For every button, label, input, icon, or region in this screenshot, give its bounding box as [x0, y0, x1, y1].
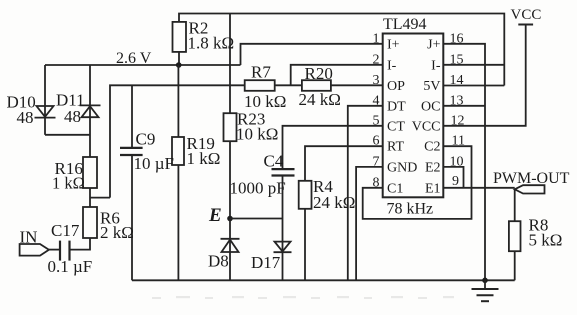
svg-text:OP: OP [387, 79, 405, 94]
wire: pin 4 (DT) lead down to ground rail [348, 106, 383, 280]
wire: 2.6V net from D10 column to pin 1 riser [45, 64, 241, 66]
wire: R16 to R6 [89, 188, 91, 207]
svg-text:12: 12 [451, 113, 465, 128]
svg-text:6: 6 [373, 134, 380, 149]
svg-text:RT: RT [387, 140, 404, 155]
svg-text:5V: 5V [423, 79, 440, 94]
svg-text:11: 11 [452, 134, 465, 149]
svg-text:PWM-OUT: PWM-OUT [493, 170, 570, 187]
wire: node E down through D8 to ground rail [229, 219, 231, 281]
svg-text:10: 10 [450, 154, 464, 169]
diode D8 (cathode up) [221, 238, 240, 240]
wire: feedback rail at y=85 from R16/R6 tap to R7 [110, 85, 245, 197]
svg-text:24 kΩ: 24 kΩ [313, 193, 355, 212]
wire: R4 bottom to ground rail [304, 209, 306, 280]
capacitor C4 plates [272, 168, 295, 170]
svg-text:16: 16 [450, 31, 464, 46]
svg-text:13: 13 [450, 93, 464, 108]
scan artifact smudges (decorative) [152, 296, 454, 299]
svg-text:R7: R7 [251, 63, 271, 82]
svg-text:4: 4 [373, 93, 380, 108]
svg-text:C1: C1 [387, 181, 403, 196]
wire: top rail drop to R23 [229, 14, 231, 114]
svg-text:C17: C17 [51, 221, 80, 240]
svg-text:2.6 V: 2.6 V [116, 50, 152, 67]
resistor R8 [509, 221, 521, 251]
capacitor C9 plates [120, 147, 143, 149]
resistor R2 [173, 22, 187, 52]
svg-text:10 kΩ: 10 kΩ [244, 92, 286, 111]
resistor R20 [302, 80, 331, 91]
wire: pin 7 (GND) lead down to ground rail [356, 167, 383, 280]
svg-text:24 kΩ: 24 kΩ [299, 90, 341, 109]
IC U1 TL494 body [383, 34, 444, 198]
svg-text:C9: C9 [136, 130, 156, 149]
svg-text:DT: DT [387, 99, 406, 114]
svg-text:VCC: VCC [412, 119, 441, 134]
svg-text:E: E [208, 205, 222, 226]
diode D17 (cathode down) [275, 242, 291, 252]
resistor R19 [172, 137, 184, 165]
svg-text:1000 pF: 1000 pF [230, 179, 286, 198]
junction dot at ground symbol [482, 278, 488, 284]
svg-text:10 kΩ: 10 kΩ [236, 125, 278, 144]
svg-text:TL494: TL494 [383, 16, 427, 33]
resistor R4 [299, 181, 312, 209]
svg-text:9: 9 [452, 174, 459, 189]
wire: pin 5 (CT) lead to C4 [283, 126, 384, 169]
wire: R20 to pin 3 (OP) [331, 84, 383, 86]
wire: C9 bottom to ground rail [131, 155, 133, 280]
wire: 2.6V node down to R19 [177, 65, 179, 137]
diode D11 (cathode up) [80, 104, 101, 106]
wire: node E to C4/D17 column [230, 218, 283, 220]
wire: D10 bottom to link [45, 134, 90, 136]
wire: pin 8 (C1) loop under IC to pin 11 (C2) [363, 146, 472, 219]
svg-text:10 µF: 10 µF [134, 154, 175, 173]
wire: pin 9 (E1) lead to PWM-OUT [443, 187, 514, 189]
wire: pin 13 (OC) lead to ground column [443, 105, 485, 107]
wire: R2 bottom to 2.6V node [178, 52, 180, 65]
wire: pin 15 (I-) lead to top-rail drop [443, 64, 504, 66]
resistor R7 [245, 80, 275, 91]
svg-text:J+: J+ [427, 37, 440, 52]
wire: pin 6 (RT) lead to R4 [305, 146, 383, 181]
resistor R6 [83, 207, 97, 238]
wire: D10 branch [44, 65, 46, 135]
svg-text:R20: R20 [305, 64, 333, 83]
svg-text:78 kHz: 78 kHz [387, 201, 434, 218]
wire: pin 14 (5V) lead to top-rail drop [443, 85, 504, 87]
svg-text:5 kΩ: 5 kΩ [529, 231, 563, 250]
wire: R19 bottom to ground rail [177, 165, 179, 280]
svg-text:D8: D8 [208, 252, 229, 271]
svg-text:C2: C2 [424, 140, 440, 155]
svg-text:E1: E1 [425, 181, 441, 196]
svg-text:8: 8 [373, 175, 380, 190]
junction dot node E [227, 216, 233, 222]
svg-text:5: 5 [373, 113, 380, 128]
wire: R23 bottom to node E [229, 141, 231, 218]
svg-text:3: 3 [373, 73, 380, 88]
svg-text:15: 15 [450, 52, 464, 67]
ground symbol [484, 280, 486, 289]
wire: top rail from R2 top to pin15/14 drop [179, 14, 504, 86]
svg-text:2: 2 [373, 52, 380, 67]
wire: pin 2 lead with drop to R7-R20 junction [291, 65, 383, 86]
svg-text:OC: OC [421, 99, 440, 114]
svg-text:1 kΩ: 1 kΩ [52, 174, 85, 193]
wire: R7 to R20 link [275, 84, 302, 86]
junction dot at R2 bottom / 2.6V node [176, 62, 182, 68]
wire: R6 bottom to C17 [71, 238, 91, 250]
wire: D11 branch down to R16 [89, 65, 91, 157]
power VCC symbol bar [518, 24, 533, 26]
svg-text:IN: IN [20, 228, 38, 247]
svg-text:I-: I- [431, 58, 441, 73]
wire: C9 tap from feedback rail [131, 85, 133, 147]
svg-text:I-: I- [387, 58, 397, 73]
capacitor C17 plates [68, 241, 70, 261]
svg-text:14: 14 [450, 73, 464, 88]
svg-text:48: 48 [17, 108, 34, 127]
wire: pin 10 (E2) jog to pin 9 [443, 167, 463, 188]
svg-text:2 kΩ: 2 kΩ [100, 223, 134, 242]
wire: bottom ground rail [132, 279, 515, 281]
wire: R8 bottom to ground rail [514, 251, 516, 280]
svg-text:48: 48 [64, 107, 81, 126]
wire: pin 12 (VCC) lead to VCC column [443, 25, 525, 126]
wire: R16/R6 junction tap to feedback rail [90, 197, 110, 199]
wire: PWM-OUT tap down to R8 [514, 189, 516, 221]
wire: C4 bottom through D17 to ground rail [282, 176, 284, 281]
resistor R16 [83, 157, 97, 188]
svg-text:C4: C4 [264, 152, 284, 171]
terminal PWM-OUT flag [515, 185, 545, 193]
resistor R23 [224, 113, 237, 141]
svg-text:1 kΩ: 1 kΩ [187, 149, 221, 168]
svg-text:1: 1 [373, 31, 380, 46]
diode D10 (cathode down) [37, 106, 54, 117]
wire: pin 1 riser and pin 1 lead [241, 44, 384, 65]
svg-text:VCC: VCC [511, 7, 542, 23]
svg-text:1.8 kΩ: 1.8 kΩ [188, 34, 235, 53]
svg-text:I+: I+ [387, 37, 400, 52]
wire: C17 to IN terminal [49, 249, 59, 251]
wire: pin 16 (J+) lead to ground column [443, 44, 485, 280]
svg-text:E2: E2 [425, 160, 441, 175]
svg-text:0.1 µF: 0.1 µF [48, 257, 93, 276]
svg-text:CT: CT [387, 119, 405, 134]
svg-text:GND: GND [387, 160, 417, 175]
svg-text:7: 7 [373, 154, 380, 169]
terminal IN flag [20, 244, 49, 256]
svg-text:D17: D17 [251, 253, 281, 272]
